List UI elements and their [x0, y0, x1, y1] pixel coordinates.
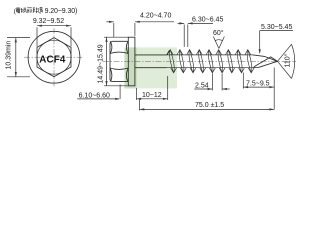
point top edge [253, 55, 278, 61]
svg-text:10.39min: 10.39min [6, 41, 13, 70]
drill point [253, 55, 278, 68]
ext top [104, 36, 128, 38]
hex bottom edge [112, 81, 129, 83]
svg-text:7.5~9.5: 7.5~9.5 [246, 81, 270, 88]
svg-text:5.30~5.45: 5.30~5.45 [261, 24, 292, 31]
front view centerline horizontal [24, 56, 84, 58]
svg-text:4.20~4.70: 4.20~4.70 [140, 13, 171, 20]
side view screw centerline [103, 60, 296, 62]
hex top edge [112, 40, 129, 42]
arrow down [15, 72, 17, 77]
extension line left [36, 27, 38, 46]
glyph 前 [27, 8, 32, 13]
hex chamfer arcs lower [110, 68, 128, 82]
dim 9.32~9.52 line [37, 25, 71, 27]
ext left [135, 88, 137, 100]
extension bottom [7, 76, 30, 78]
inscribed circle in hexagon [37, 40, 71, 74]
glyph 對 [33, 7, 38, 13]
underline leader [77, 98, 119, 100]
svg-text:2.54: 2.54 [195, 83, 209, 90]
svg-text:60°: 60° [213, 29, 224, 37]
110 deg arc [292, 44, 295, 78]
ext right [134, 23, 136, 36]
outer circle (flange OD) [28, 31, 80, 83]
60 deg arc [215, 39, 222, 42]
right arrow [222, 88, 230, 90]
svg-text:ACF4: ACF4 [39, 55, 66, 66]
svg-text:75.0 ±1.5: 75.0 ±1.5 [195, 102, 224, 109]
right arrow outside with tail [135, 21, 174, 23]
dim line vertical [106, 37, 108, 86]
svg-text:9.32~9.52: 9.32~9.52 [33, 18, 64, 25]
hex corner line upper [110, 52, 128, 54]
flange rect [128, 37, 135, 86]
tail line + arrows [188, 22, 213, 24]
underline [260, 30, 293, 32]
svg-text:110°: 110° [284, 53, 292, 67]
vertical to shank [119, 85, 121, 99]
thread root lines [167, 54, 253, 56]
arrow up [105, 37, 107, 42]
shank [135, 54, 167, 56]
dim line [140, 108, 275, 110]
dim 10.39min line [15, 38, 17, 77]
ext right [167, 76, 169, 100]
leader down with arrow [259, 31, 261, 53]
tail + arrow left [194, 88, 212, 90]
ext left [113, 23, 115, 37]
left riser [139, 100, 141, 111]
dim line [243, 86, 274, 88]
hex chamfer arcs upper [110, 41, 128, 53]
arrow left [37, 25, 42, 27]
svg-text:9.20~9.30): 9.20~9.30) [45, 8, 78, 15]
extension top [7, 37, 30, 39]
ext lines [211, 74, 213, 91]
60 deg legs [213, 37, 224, 49]
arrow right [66, 25, 71, 27]
watermark green bar [125, 47, 137, 88]
arrow up [15, 38, 17, 43]
ext left [242, 73, 244, 89]
glyph 邊 [39, 7, 43, 12]
110 deg annotation legs [278, 44, 292, 78]
svg-text:6.10~6.60: 6.10~6.60 [79, 93, 110, 100]
point bottom edge [253, 61, 278, 67]
svg-text:10~12: 10~12 [142, 92, 162, 99]
watermark green block [124, 47, 177, 88]
hex corner line lower [110, 68, 128, 70]
left arrow outside [106, 21, 113, 23]
head side view outline [110, 37, 135, 86]
ext bottom [104, 85, 128, 87]
ext lines [183, 25, 185, 48]
glyph 電 [16, 7, 20, 12]
note CJK glyphs [16, 7, 43, 13]
extension line right [70, 27, 72, 46]
front view centerline vertical [53, 28, 55, 88]
glyph 鍍 [21, 8, 27, 13]
flute line [254, 57, 278, 67]
dim line [136, 98, 167, 100]
head top face [110, 41, 112, 81]
threads (coil) [167, 50, 255, 73]
svg-text:6.30~6.45: 6.30~6.45 [192, 17, 223, 24]
ext right (shared with 75.0) [273, 68, 275, 110]
hexagon (flats left/right) [37, 38, 71, 77]
svg-text:14.49~15.49: 14.49~15.49 [98, 44, 105, 83]
arrow down [105, 81, 107, 86]
